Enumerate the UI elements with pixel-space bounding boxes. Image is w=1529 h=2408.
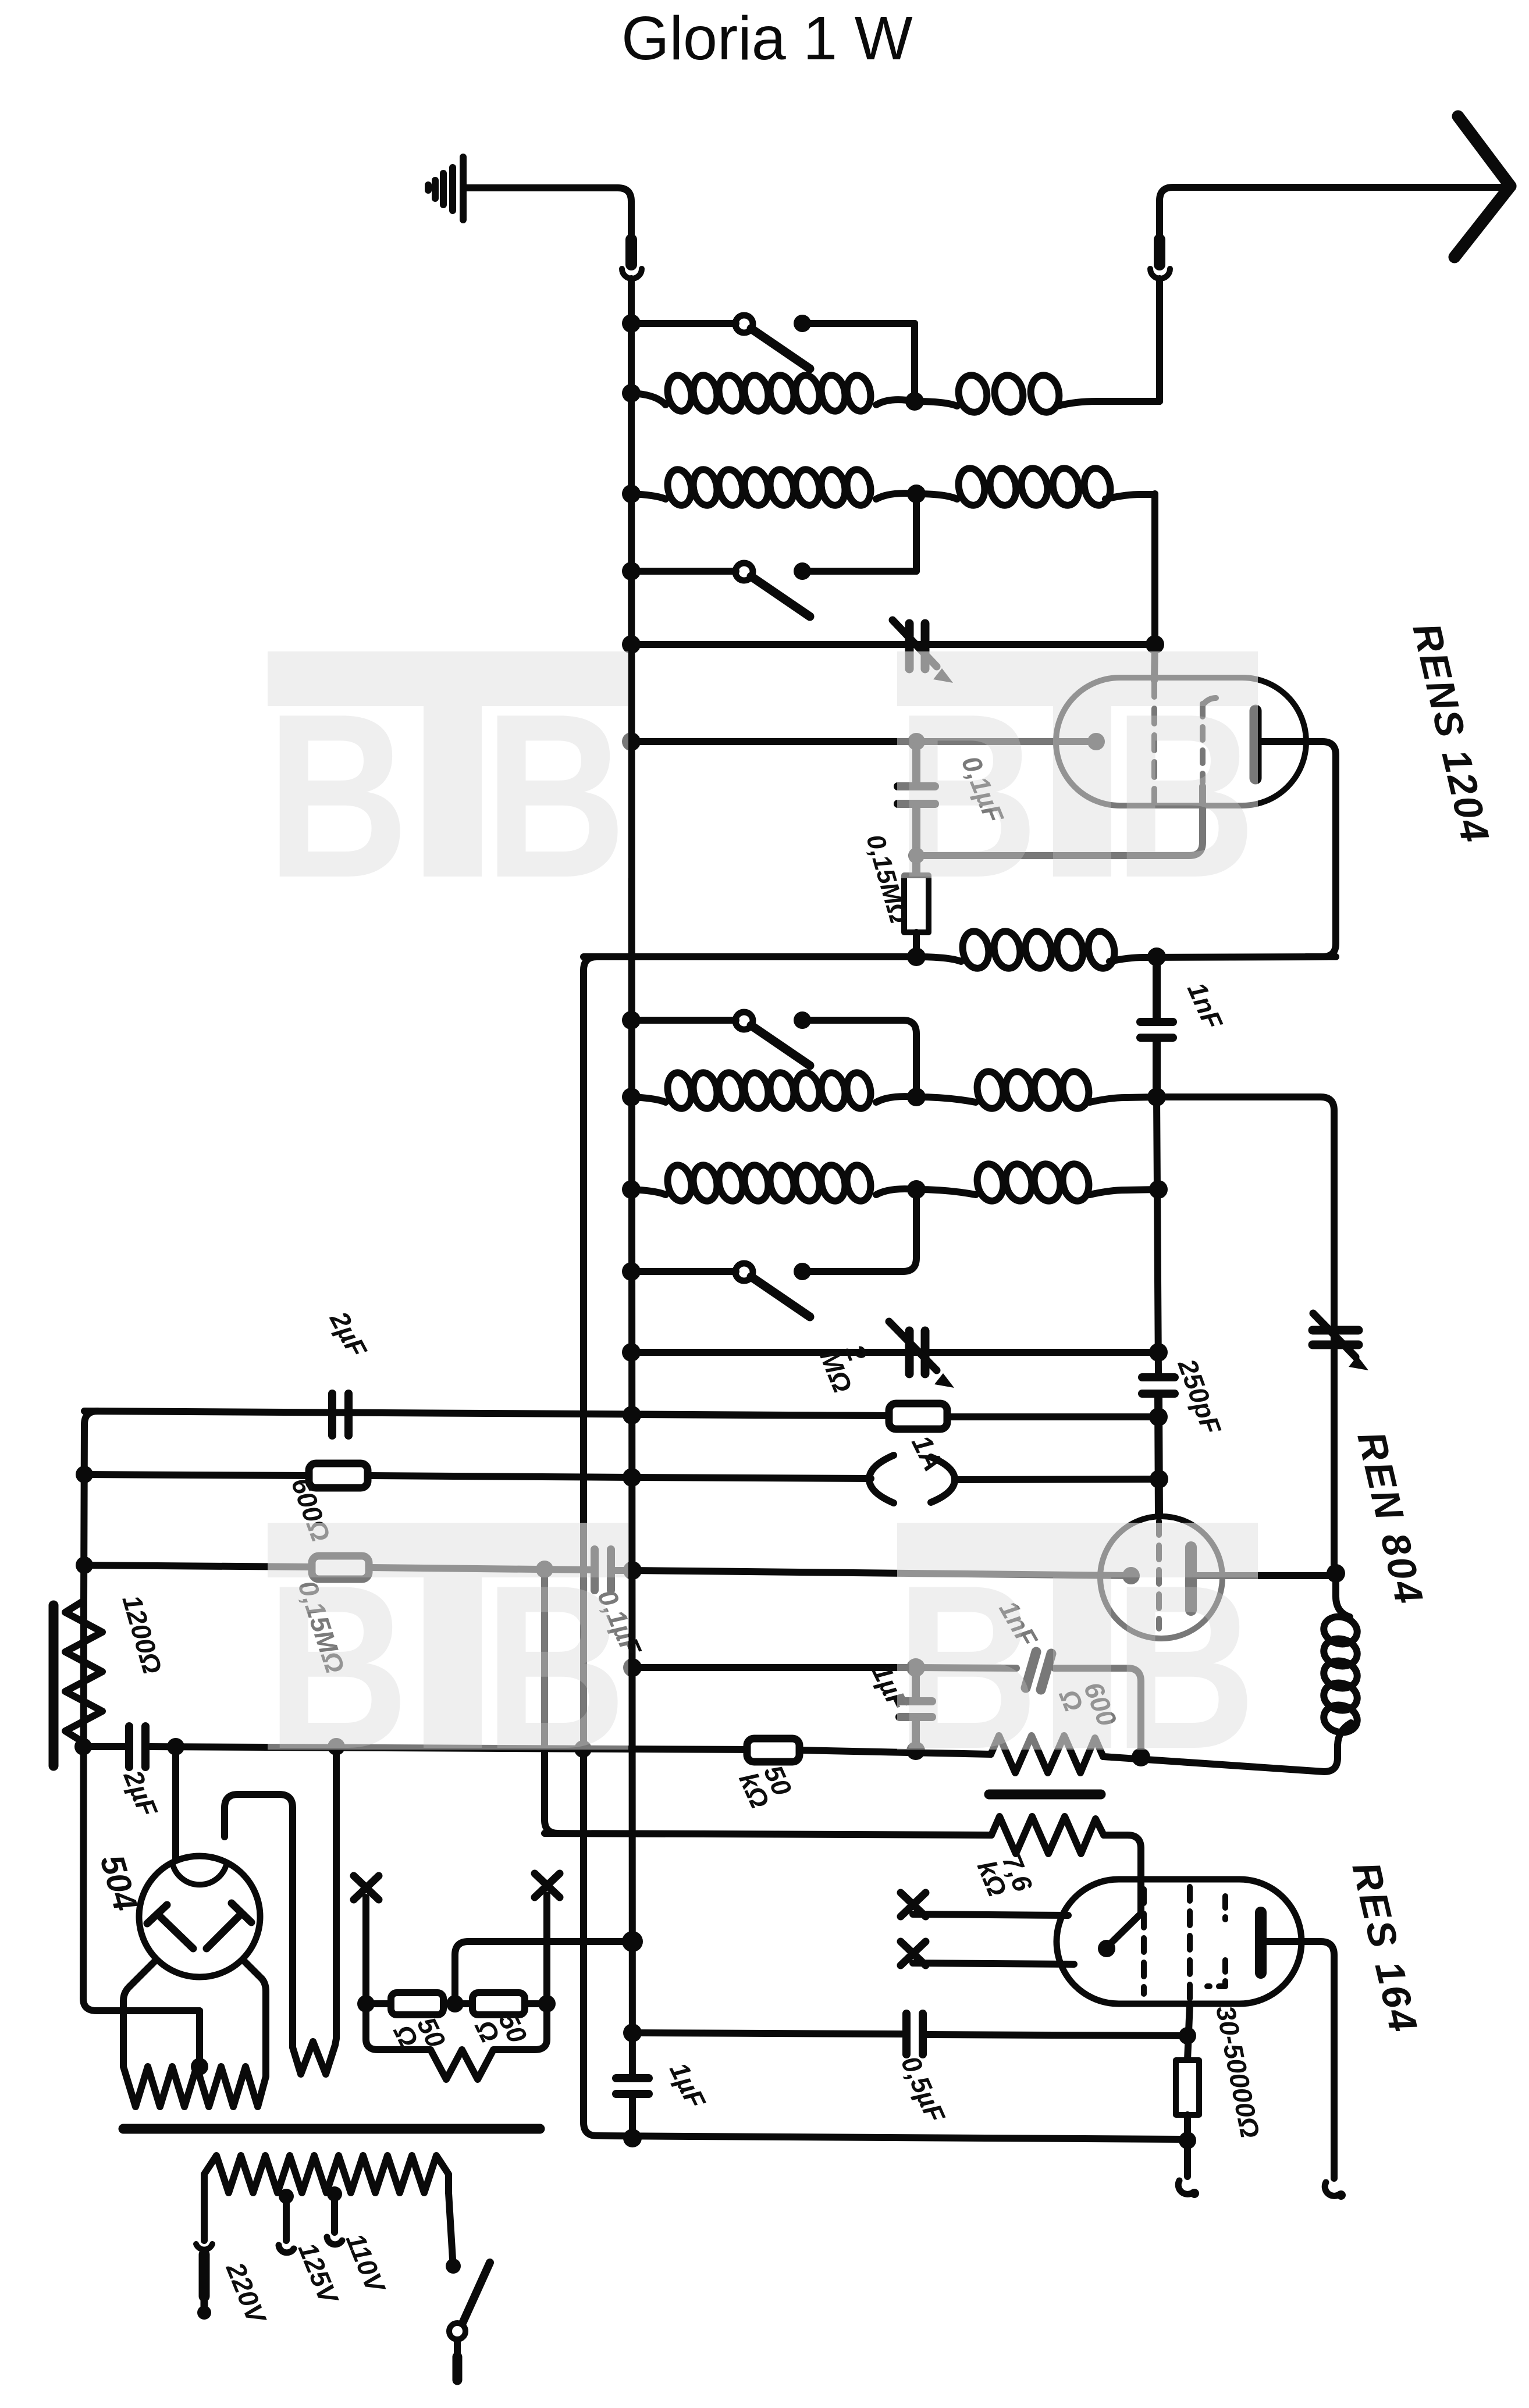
grid leak node on cathode line: [908, 733, 925, 750]
heater X wire 1: [362, 1897, 369, 2004]
wire rowB to reaction column: [1157, 1097, 1334, 1576]
coil L2a (8 loops): [631, 494, 666, 499]
RENS 1204 anode plate: [1250, 711, 1262, 778]
reaction coil (vertical, 5 loops, loops bulge left): [1336, 1576, 1350, 1617]
resistor 0,15MOhm (vertical box): [904, 875, 929, 932]
connector plug antenna-bus (earth plug): [622, 240, 642, 326]
RES164 heater X lead 1: [913, 1914, 1068, 1915]
wire left column vertical: [84, 1411, 98, 1601]
wire antenna to plug: [1160, 187, 1502, 238]
RES164 filament node: [1098, 1940, 1115, 1957]
wire rowH to REN804 cathode: [632, 1570, 1131, 1576]
svg-text:Gloria 1 W: Gloria 1 W: [621, 4, 913, 73]
connector plug antenna lead: [1150, 240, 1170, 401]
potentiometer 1200 Ohm (zigzag with slider bar): [65, 1601, 102, 1747]
wire rowF (2MOhm row, right part): [632, 1415, 889, 1416]
capacitor 2uF (series, vertical plates): [332, 1394, 349, 1435]
coil L1b (3 loops): [915, 401, 957, 406]
wire rowG right part with fuse 1A: [632, 1477, 871, 1479]
wire row5 grid line: [631, 641, 1155, 648]
REN 804 grid (dashed): [1156, 1521, 1162, 1629]
HT winding W2: [293, 1747, 336, 2074]
resistor 2MOhm: [889, 1404, 947, 1429]
trimmer capacitor with arrow (reaction column): [1313, 1313, 1368, 1370]
mains tap 110V: [331, 2194, 338, 2232]
svg-text:B: B: [896, 1537, 1039, 1798]
trimmer capacitor rowE: [889, 1321, 954, 1388]
terminal (grid return): [1178, 2181, 1193, 2194]
coil L1a (8 loops): [631, 393, 666, 405]
wire grid column down to RENS tube: [1154, 644, 1155, 681]
RENS 1204 screen grid (dashed): [1200, 704, 1206, 782]
mains primary winding (zigzag): [204, 2156, 449, 2193]
ground: [428, 157, 463, 220]
screen feed wire: [916, 786, 1203, 856]
wire L2b down to grid column: [1151, 494, 1158, 644]
switch S2 row4: [631, 494, 916, 617]
wire rowH left: [84, 1565, 312, 1567]
RES164 screen grid (dashed): [1187, 1887, 1193, 2004]
wire B+ line y3003: [83, 1743, 125, 1750]
wire left column to heater winding: [83, 1601, 200, 2011]
REN 804 anode plate: [1185, 1547, 1197, 1610]
wire row2 to antenna plug: [1155, 282, 1160, 401]
svg-text:B: B: [896, 665, 1039, 927]
tube RES 164 envelope: [1057, 1879, 1302, 2004]
coil L4b (4 loops) rowB: [916, 1097, 976, 1102]
resistor 600 Ohm: [309, 1463, 368, 1488]
RES164 anode plate: [1255, 1912, 1267, 1973]
RES164 anode lead to terminal: [1265, 1942, 1334, 2178]
capacitor 2uF (HT smoothing, series bars): [129, 1726, 145, 1767]
wire ground to bus: [465, 188, 631, 238]
svg-text:B: B: [1114, 1537, 1256, 1798]
loudspeaker core bar: [989, 1790, 1101, 1800]
fuse 1A: [869, 1455, 955, 1503]
transformer core bar: [123, 2124, 540, 2134]
mains tap 220V: [201, 2193, 208, 2240]
wire bus main vertical: [631, 323, 632, 2138]
wire rowF left with capacitor 2uF: [84, 1411, 889, 1416]
capacitor 250pF: [1142, 1377, 1175, 1516]
mains tap 125V: [283, 2196, 290, 2240]
504 anode loop: [225, 1794, 293, 2047]
resistor 30-50000 Ohm (vertical box): [1176, 2060, 1199, 2115]
heater winding W3 under 50 Ohm: [366, 2004, 547, 2079]
center tap to bus: [455, 1942, 632, 2004]
resistor 50 Ohm (right box): [472, 1993, 525, 2015]
trimmer capacitor (grid series trimmer): [892, 620, 953, 683]
tube 504 rectifier envelope: [139, 1856, 260, 1977]
wire x936 column: [545, 1569, 558, 1833]
switch S3 rowA: [631, 1012, 916, 1097]
capacitor 1nF (tilted, with stem) rowJ: [916, 1668, 1016, 1668]
RES164 heater X lead 2: [913, 1963, 1074, 1964]
resistor 50 Ohm (left box): [366, 2000, 391, 2007]
coil L4a (8 loops) rowB: [631, 1097, 666, 1102]
coil L5a (8 loops) rowC: [631, 1189, 666, 1195]
504 top lead: [172, 1747, 179, 1859]
watermark BTB block 2: [897, 651, 1258, 878]
capacitor 0,1uF (series in rowH): [595, 1549, 611, 1590]
watermark BTB block 1: [268, 651, 628, 878]
grid/anode column x1990: [1157, 1097, 1158, 1373]
watermark BTB block 4: [897, 1523, 1258, 1750]
capacitor 1uF (output filter, on bus): [628, 2082, 637, 2091]
504 top cap cup: [172, 1862, 227, 1885]
RENS anode lead: [1260, 742, 1336, 957]
output terminal (anode): [1325, 2182, 1340, 2196]
mains switch: [449, 2193, 453, 2259]
resistor 7,6kOhm (zigzag): [545, 1833, 991, 1835]
capacitor 1uF (cathode bypass): [899, 1672, 932, 1751]
resistor 0,15MOhm (box): [312, 1556, 369, 1579]
svg-text:B: B: [266, 1537, 409, 1798]
switch S4 rowD: [631, 1189, 916, 1317]
resistor 600 Ohm (zigzag, speaker field): [991, 1736, 1103, 1773]
heater X wire 2: [543, 1895, 550, 2004]
504 filament lead right: [243, 1960, 266, 2067]
resistor 50kOhm (box): [747, 1739, 799, 1762]
svg-text:B: B: [266, 665, 409, 927]
antenna: [1455, 116, 1510, 257]
RENS 1204 cathode lead + node: [631, 738, 1096, 745]
wire rowG left: [84, 1474, 309, 1476]
coil L3 (5 loops) in 1645 row: [916, 957, 961, 961]
watermark BTB block 3: [268, 1523, 628, 1750]
svg-text:B: B: [1114, 665, 1256, 927]
REN 804 anode lead: [1196, 1572, 1334, 1579]
504 filament: [147, 1903, 251, 1949]
grid coupling row 0,5uF: [632, 2033, 902, 2034]
capacitor 1nF (anode-grid column): [1140, 957, 1173, 1097]
RES164 grid lead down: [1187, 2004, 1190, 2060]
504 filament lead left: [123, 1960, 156, 2067]
wire rowE (second grid line): [631, 1349, 1158, 1356]
RENS 1204 grid (dashed): [1151, 682, 1157, 803]
svg-text:B: B: [484, 1537, 627, 1798]
RES164 grid (dashed): [1141, 1889, 1147, 1994]
switch S1 row1: [631, 315, 915, 401]
wire row 1645 (grid return): [584, 957, 1187, 2139]
capacitor 0,1uF (grid): [898, 746, 935, 875]
wire 1uF junction row y2867: [632, 1664, 916, 1671]
coil L5b (4 loops) rowC: [916, 1189, 976, 1195]
coil L2b (5 loops): [916, 494, 957, 499]
tube REN 804 envelope: [1100, 1516, 1222, 1638]
heater winding G1 (sawtooth): [123, 2067, 266, 2107]
tube RENS 1204 envelope: [1056, 678, 1306, 806]
svg-text:B: B: [484, 665, 627, 927]
